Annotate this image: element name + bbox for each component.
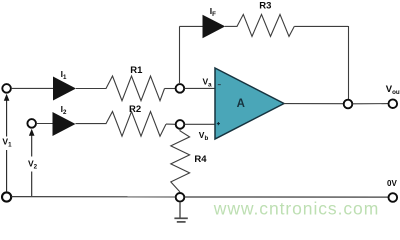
terminal Vout	[389, 99, 398, 108]
svg-text:0V: 0V	[387, 179, 397, 188]
terminal 0V right	[389, 193, 398, 202]
wire junction to Vout terminal	[353, 103, 389, 105]
wire R3 to feedback right corner	[294, 25, 348, 27]
current arrow I2	[53, 112, 76, 136]
node output junction	[344, 100, 353, 109]
ground	[174, 202, 187, 222]
svg-text:R2: R2	[129, 104, 141, 115]
svg-text:I2: I2	[61, 104, 67, 116]
wire R1 to node Va	[165, 88, 176, 90]
svg-text:V2: V2	[28, 159, 38, 171]
resistor R4	[171, 129, 190, 192]
svg-text:I1: I1	[61, 69, 67, 81]
node Vb	[176, 120, 185, 129]
svg-text:IF: IF	[210, 6, 216, 18]
op-amp A	[215, 68, 284, 139]
voltage arrow V1	[4, 94, 10, 193]
wire Vb to op-amp non-inverting input	[185, 123, 216, 125]
svg-text:R1: R1	[130, 65, 143, 76]
svg-text:V1: V1	[2, 137, 12, 149]
wire op-amp output	[284, 103, 344, 105]
resistor R2	[106, 112, 166, 137]
wire R2 to node Vb	[166, 123, 176, 125]
resistor R1	[106, 76, 165, 101]
wire IF to R3	[225, 25, 238, 27]
wire 0V rail left segment	[11, 196, 175, 198]
node R4 / 0V rail junction	[176, 193, 185, 202]
terminal 0V left	[2, 192, 11, 201]
wire feedback right vertical down	[348, 26, 350, 100]
wire input1 to I1 arrow	[11, 87, 53, 89]
current arrow I1	[53, 77, 76, 101]
resistor R3	[237, 14, 294, 36]
svg-text:Vb: Vb	[199, 130, 209, 142]
node Va	[176, 84, 185, 93]
svg-text:www.cntronics.com: www.cntronics.com	[213, 199, 379, 219]
terminal V2 input	[27, 119, 36, 128]
wire 0V rail right segment	[185, 196, 388, 198]
svg-text:Vout: Vout	[386, 84, 400, 96]
wire I1 to R1	[76, 88, 107, 90]
svg-text:Va: Va	[203, 76, 213, 88]
op-amp minus sign	[218, 84, 221, 86]
voltage arrow V2	[29, 129, 35, 196]
svg-text:R4: R4	[194, 154, 207, 165]
svg-text:R3: R3	[259, 1, 271, 12]
wire input2 to I2 arrow	[36, 123, 53, 125]
terminal V1 input	[2, 84, 11, 93]
wire feedback top to IF arrow	[179, 25, 203, 27]
wire feedback left vertical (Va up)	[179, 26, 181, 84]
svg-text:A: A	[237, 98, 245, 110]
wire I2 to R2	[76, 123, 107, 125]
op-amp plus sign	[217, 122, 220, 125]
wire Va to op-amp inverting input	[184, 87, 215, 89]
current arrow IF	[203, 15, 226, 38]
